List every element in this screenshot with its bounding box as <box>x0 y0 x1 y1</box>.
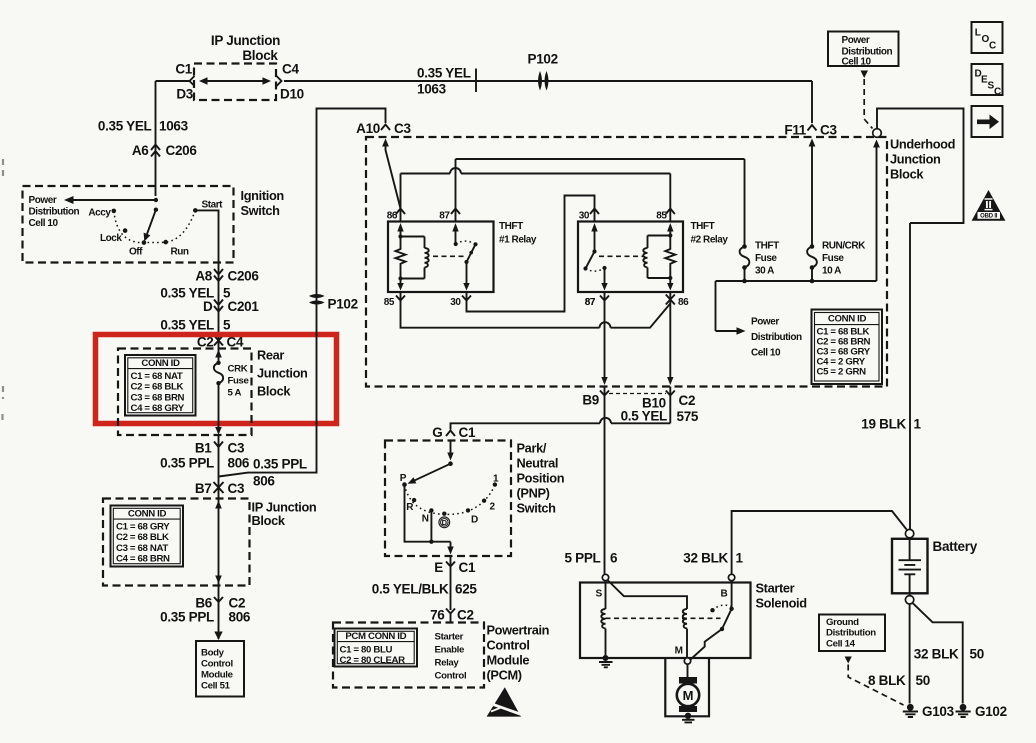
svg-text:C4 = 68 GRY: C4 = 68 GRY <box>131 403 185 414</box>
svg-text:Battery: Battery <box>933 539 978 554</box>
svg-text:C1 = 68 NAT: C1 = 68 NAT <box>131 371 183 382</box>
svg-text:Position: Position <box>517 471 565 486</box>
svg-text:Fuse: Fuse <box>755 253 777 264</box>
svg-text:575: 575 <box>677 409 699 424</box>
svg-text:E: E <box>434 560 443 575</box>
svg-text:B6: B6 <box>195 596 212 611</box>
svg-text:Control: Control <box>201 659 233 670</box>
svg-text:5 PPL: 5 PPL <box>564 551 600 566</box>
svg-text:8 BLK: 8 BLK <box>868 673 906 688</box>
svg-text:L: L <box>975 28 981 39</box>
svg-text:C2 = 68 BLK: C2 = 68 BLK <box>131 382 184 393</box>
svg-text:D: D <box>471 515 478 526</box>
svg-text:C2 = 68 BLK: C2 = 68 BLK <box>116 532 169 543</box>
svg-text:1: 1 <box>736 551 744 566</box>
svg-text:(PNP): (PNP) <box>517 486 550 501</box>
svg-text:PCM CONN ID: PCM CONN ID <box>345 631 406 642</box>
svg-text:Switch: Switch <box>517 501 557 516</box>
svg-text:Fuse: Fuse <box>822 253 844 264</box>
svg-text:C1: C1 <box>459 425 476 440</box>
svg-text:D: D <box>442 518 448 527</box>
svg-text:Starter: Starter <box>435 631 464 642</box>
svg-text:10 A: 10 A <box>822 266 841 277</box>
svg-text:C4: C4 <box>282 62 299 77</box>
svg-text:32 BLK: 32 BLK <box>914 647 959 662</box>
svg-text:Cell 10: Cell 10 <box>29 218 59 229</box>
svg-text:86: 86 <box>387 211 398 222</box>
svg-text:1063: 1063 <box>159 119 189 134</box>
svg-text:RUN/CRK: RUN/CRK <box>822 241 866 252</box>
svg-text:Park/: Park/ <box>517 441 547 456</box>
svg-text:Block: Block <box>257 384 291 399</box>
svg-text:50: 50 <box>916 673 930 688</box>
svg-text:Fuse: Fuse <box>228 376 250 387</box>
svg-text:19 BLK: 19 BLK <box>861 417 906 432</box>
svg-text:B7: B7 <box>195 481 212 496</box>
svg-text:625: 625 <box>455 582 477 597</box>
svg-text:C201: C201 <box>228 299 260 314</box>
svg-text:0.35 YEL: 0.35 YEL <box>160 318 214 333</box>
svg-text:Switch: Switch <box>241 203 281 218</box>
svg-text:Block: Block <box>242 48 278 63</box>
svg-text:C3 = 68 NAT: C3 = 68 NAT <box>116 543 168 554</box>
svg-text:Neutral: Neutral <box>517 456 559 471</box>
svg-text:87: 87 <box>585 297 596 308</box>
svg-text:32 BLK: 32 BLK <box>683 551 728 566</box>
svg-text:0.5 YEL: 0.5 YEL <box>621 409 667 424</box>
svg-text:0.35 PPL: 0.35 PPL <box>253 457 307 472</box>
svg-text:(PCM): (PCM) <box>487 668 522 683</box>
svg-text:A6: A6 <box>132 143 149 158</box>
svg-text:0.5 YEL/BLK: 0.5 YEL/BLK <box>372 582 449 597</box>
svg-text:Cell 10: Cell 10 <box>751 348 781 359</box>
svg-text:C: C <box>994 87 1001 98</box>
svg-text:G: G <box>432 425 442 440</box>
svg-text:Distribution: Distribution <box>826 628 876 639</box>
svg-text:IP Junction: IP Junction <box>211 33 280 48</box>
svg-text:Underhood: Underhood <box>890 137 955 152</box>
svg-text:C4 = 68 BRN: C4 = 68 BRN <box>116 554 170 565</box>
svg-text:D: D <box>203 299 213 314</box>
svg-text:30: 30 <box>450 297 461 308</box>
svg-text:CONN ID: CONN ID <box>141 358 180 369</box>
svg-text:Distribution: Distribution <box>29 207 80 218</box>
svg-text:85: 85 <box>656 211 667 222</box>
svg-text:Block: Block <box>890 167 924 182</box>
svg-text:Cell 51: Cell 51 <box>201 681 231 692</box>
svg-text:C206: C206 <box>228 269 260 284</box>
svg-text:5: 5 <box>223 318 231 333</box>
svg-text:86: 86 <box>678 297 689 308</box>
svg-text:Ignition: Ignition <box>241 188 285 203</box>
svg-text:S: S <box>596 589 603 600</box>
svg-text:1: 1 <box>493 474 499 485</box>
svg-text:G102: G102 <box>975 704 1007 719</box>
svg-text:A8: A8 <box>195 269 212 284</box>
svg-text:50: 50 <box>970 647 984 662</box>
svg-text:N: N <box>422 514 429 525</box>
svg-text:CONN ID: CONN ID <box>128 508 167 519</box>
svg-text:806: 806 <box>229 610 251 625</box>
svg-text:A10: A10 <box>356 121 380 136</box>
svg-text:OBD II: OBD II <box>980 214 998 220</box>
svg-text:C3: C3 <box>228 441 245 456</box>
svg-text:2: 2 <box>490 502 496 513</box>
svg-text:D3: D3 <box>176 87 193 102</box>
svg-text:M: M <box>675 646 683 657</box>
svg-text:87: 87 <box>439 211 450 222</box>
svg-text:Body: Body <box>201 648 225 659</box>
svg-text:0.35 YEL: 0.35 YEL <box>98 119 152 134</box>
svg-text:M: M <box>683 688 694 703</box>
svg-text:P: P <box>400 473 407 484</box>
svg-text:Control: Control <box>435 670 467 681</box>
svg-text:G103: G103 <box>922 704 955 719</box>
svg-text:B9: B9 <box>582 393 599 408</box>
svg-text:C1 = 68 GRY: C1 = 68 GRY <box>116 521 170 532</box>
svg-text:C: C <box>989 41 996 52</box>
svg-text:Relay: Relay <box>435 657 460 668</box>
svg-text:Module: Module <box>201 670 234 681</box>
svg-text:C3: C3 <box>820 123 837 138</box>
svg-text:C3 = 68 BRN: C3 = 68 BRN <box>131 392 185 403</box>
svg-text:THFT: THFT <box>691 221 715 232</box>
svg-text:5 A: 5 A <box>228 388 242 399</box>
svg-text:Power: Power <box>751 317 779 328</box>
svg-text:Enable: Enable <box>435 644 465 655</box>
svg-text:6: 6 <box>610 551 618 566</box>
svg-text:76: 76 <box>430 608 445 623</box>
svg-text:806: 806 <box>253 474 275 489</box>
svg-text:Ground: Ground <box>826 617 859 628</box>
svg-text:Starter: Starter <box>756 581 795 596</box>
svg-text:Off: Off <box>129 247 143 258</box>
svg-text:806: 806 <box>228 456 250 471</box>
svg-text:0.35 PPL: 0.35 PPL <box>160 610 214 625</box>
svg-text:C2: C2 <box>229 596 246 611</box>
svg-text:Distribution: Distribution <box>751 332 802 343</box>
svg-text:C1: C1 <box>459 560 476 575</box>
svg-text:C206: C206 <box>166 143 198 158</box>
svg-text:C3: C3 <box>394 121 411 136</box>
svg-text:C5 = 2 GRN: C5 = 2 GRN <box>817 367 867 378</box>
svg-text:C1: C1 <box>175 62 192 77</box>
svg-text:CONN ID: CONN ID <box>828 314 867 325</box>
svg-text:CRK: CRK <box>228 364 248 375</box>
svg-text:Power: Power <box>842 35 870 46</box>
svg-text:Run: Run <box>170 247 188 258</box>
svg-text:0.35 YEL: 0.35 YEL <box>417 66 471 81</box>
svg-text:Junction: Junction <box>890 152 941 167</box>
svg-text:Accy: Accy <box>88 208 111 219</box>
svg-text:30: 30 <box>579 211 590 222</box>
svg-text:0.35 PPL: 0.35 PPL <box>160 456 214 471</box>
svg-text:Power: Power <box>29 195 57 206</box>
svg-text:C1 = 80 BLU: C1 = 80 BLU <box>340 644 393 655</box>
svg-text:1: 1 <box>914 417 922 432</box>
svg-text:Powertrain: Powertrain <box>487 623 550 638</box>
svg-text:Solenoid: Solenoid <box>756 596 807 611</box>
svg-text:THFT: THFT <box>499 221 523 232</box>
svg-text:Block: Block <box>252 513 286 528</box>
svg-text:F11: F11 <box>784 123 806 138</box>
svg-text:C2: C2 <box>457 608 474 623</box>
svg-text:C2 = 80 CLEAR: C2 = 80 CLEAR <box>340 655 406 666</box>
svg-text:30 A: 30 A <box>755 266 774 277</box>
svg-text:#2 Relay: #2 Relay <box>691 235 729 246</box>
svg-text:Rear: Rear <box>257 348 284 363</box>
svg-text:C3: C3 <box>228 481 245 496</box>
svg-text:Junction: Junction <box>257 366 308 381</box>
svg-text:Cell 10: Cell 10 <box>842 57 872 68</box>
svg-text:#1 Relay: #1 Relay <box>499 235 537 246</box>
svg-text:Start: Start <box>202 200 224 211</box>
svg-text:Control: Control <box>487 638 530 653</box>
svg-text:Cell 14: Cell 14 <box>826 638 856 649</box>
svg-text:Lock: Lock <box>100 233 122 244</box>
svg-text:P102: P102 <box>328 297 358 312</box>
svg-text:B1: B1 <box>195 441 212 456</box>
svg-text:D10: D10 <box>280 87 304 102</box>
svg-text:85: 85 <box>384 297 395 308</box>
svg-text:1063: 1063 <box>417 82 447 97</box>
svg-text:THFT: THFT <box>755 241 779 252</box>
svg-text:Module: Module <box>487 653 530 668</box>
svg-text:B: B <box>721 589 728 600</box>
svg-text:C2: C2 <box>679 393 696 408</box>
svg-text:P102: P102 <box>528 52 558 67</box>
